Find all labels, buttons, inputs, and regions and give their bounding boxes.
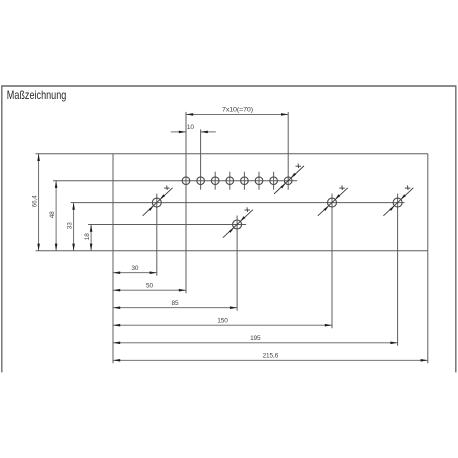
svg-text:7x10(=70): 7x10(=70) bbox=[222, 106, 253, 113]
svg-text:66,4: 66,4 bbox=[31, 195, 38, 208]
svg-text:48: 48 bbox=[49, 211, 56, 218]
svg-text:18: 18 bbox=[84, 233, 91, 240]
svg-text:30: 30 bbox=[131, 265, 138, 272]
svg-text:195: 195 bbox=[250, 335, 261, 342]
svg-text:10: 10 bbox=[187, 124, 194, 131]
svg-text:215,6: 215,6 bbox=[263, 353, 279, 360]
svg-text:Maßzeichnung: Maßzeichnung bbox=[7, 88, 67, 102]
svg-text:33: 33 bbox=[66, 222, 73, 229]
svg-text:85: 85 bbox=[172, 300, 179, 307]
svg-text:50: 50 bbox=[146, 282, 153, 289]
svg-text:150: 150 bbox=[217, 317, 228, 324]
